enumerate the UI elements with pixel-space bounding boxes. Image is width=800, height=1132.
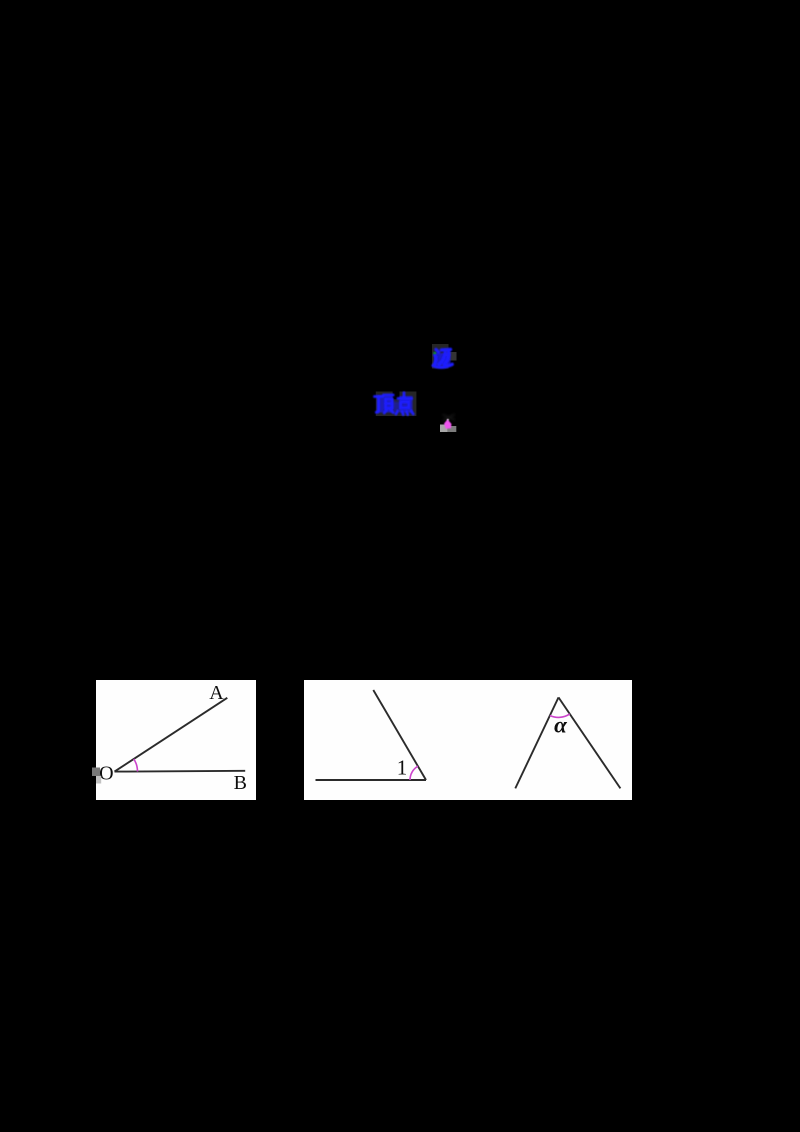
panel 2 (right white panel) [304,680,632,800]
panel 1: ray OA [115,698,228,772]
svg-text:A: A [209,682,224,704]
gray square light [440,425,448,433]
dark cross strokes [443,414,456,420]
figure alpha: angle arc [550,714,570,717]
label 边 (blue, blurred) [432,344,457,369]
figure alpha: right leg [559,697,621,788]
panel 1: angle arc [134,759,138,772]
svg-text:B: B [234,772,247,794]
figure alpha: left leg [515,697,558,788]
green speck [433,352,436,354]
svg-text:O: O [99,763,113,785]
svg-text:1: 1 [397,755,408,779]
gray square dark [448,426,457,432]
svg-text:α: α [554,713,568,738]
figure 1: angle arc [410,766,418,780]
figure 1: horizontal ray [316,779,427,781]
panel 1: ray OB (horizontal) [115,770,246,773]
panel 1: gray edge marks [92,768,100,777]
label 顶点 (blue, blurred) [375,392,417,417]
pink arrow blob [444,419,452,429]
figure 1: slanted ray [373,690,426,780]
pink cursor cluster [440,414,456,432]
panel 1 (left white panel) [96,680,256,800]
white tip [447,419,449,420]
